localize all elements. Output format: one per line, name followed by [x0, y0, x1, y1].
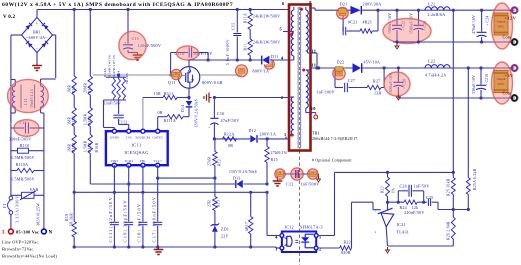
- svg-text:85~300 Vac: 85~300 Vac: [16, 230, 39, 235]
- svg-text:1nF/500V: 1nF/500V: [301, 182, 320, 187]
- svg-text:C17| 100nF/50V: C17| 100nF/50V: [151, 196, 156, 243]
- svg-text:FB1: FB1: [140, 159, 146, 163]
- svg-text:TL431: TL431: [397, 230, 410, 235]
- svg-text:N: N: [49, 231, 53, 236]
- svg-text:R15: R15: [271, 157, 278, 162]
- svg-text:330uF/10V: 330uF/10V: [472, 75, 476, 94]
- svg-text:ICE5QSAG: ICE5QSAG: [124, 150, 149, 155]
- svg-text:R18A: R18A: [72, 115, 76, 125]
- svg-text:C111| 22nF/50V: C111| 22nF/50V: [108, 196, 113, 242]
- svg-text:266uH(44:7:3:9)|ER28/17: 266uH(44:7:3:9)|ER28/17: [312, 137, 358, 141]
- svg-text:1.5MR/500V: 1.5MR/500V: [11, 155, 35, 160]
- svg-text:20MR: 20MR: [84, 82, 88, 93]
- svg-text:D21: D21: [340, 1, 348, 6]
- svg-text:#R17: #R17: [245, 222, 249, 231]
- svg-text:10: 10: [311, 106, 316, 111]
- svg-text:Line OVP=320Vac: Line OVP=320Vac: [2, 240, 39, 245]
- svg-text:220nF/50V: 220nF/50V: [404, 210, 424, 215]
- svg-text:+12V: +12V: [505, 15, 517, 20]
- svg-text:+5V: +5V: [505, 73, 514, 78]
- svg-text:L: L: [2, 231, 6, 236]
- svg-text:820R: 820R: [341, 250, 351, 255]
- svg-text:R14: R14: [116, 71, 120, 77]
- svg-text:R22: R22: [344, 240, 351, 245]
- svg-text:FR: FR: [311, 172, 314, 174]
- svg-text:IC21: IC21: [397, 222, 406, 227]
- svg-text:#R14B: #R14B: [125, 73, 129, 84]
- svg-text:0R: 0R: [158, 110, 163, 115]
- svg-text:#R21: #R21: [363, 20, 373, 25]
- svg-text:470uF/16V: 470uF/16V: [472, 15, 476, 34]
- svg-text:15R: 15R: [154, 91, 162, 96]
- svg-text:Q11: Q11: [168, 80, 176, 85]
- svg-text:5.6nF/1000V: 5.6nF/1000V: [226, 39, 230, 65]
- svg-text:SFH617A-3: SFH617A-3: [300, 225, 323, 230]
- svg-text:D11: D11: [271, 54, 279, 59]
- svg-text:1%: 1%: [392, 188, 396, 193]
- svg-text:VIN2: VIN2: [110, 159, 118, 163]
- svg-text:OVC: OVC: [498, 82, 505, 86]
- svg-text:47nF/50V: 47nF/50V: [221, 118, 240, 123]
- svg-text:D22: D22: [337, 60, 345, 65]
- svg-text:BrownOut=44Vac(No Load): BrownOut=44Vac(No Load): [2, 254, 57, 259]
- svg-text:1nF/100V: 1nF/100V: [317, 90, 335, 95]
- svg-text:Com: Com: [503, 91, 512, 96]
- svg-text:BrownIn=73Vac: BrownIn=73Vac: [2, 247, 34, 252]
- svg-text:11: 11: [312, 63, 317, 68]
- svg-text:2: 2: [319, 247, 321, 252]
- svg-text:~600V/4A~: ~600V/4A~: [26, 35, 48, 40]
- svg-text:200V/30A: 200V/30A: [363, 1, 382, 6]
- svg-text:CS3: CS3: [126, 135, 132, 139]
- svg-text:0.56R/1W/1%: 0.56R/1W/1%: [108, 55, 112, 77]
- svg-text:IC11: IC11: [131, 142, 141, 147]
- svg-text:FR: FR: [175, 73, 178, 75]
- svg-text:R11: R11: [244, 44, 248, 51]
- svg-text:FR: FR: [240, 69, 243, 71]
- svg-text:R110: R110: [20, 143, 30, 148]
- svg-text:R16B: R16B: [95, 142, 99, 152]
- svg-text:2.2uH/6A: 2.2uH/6A: [428, 12, 446, 17]
- svg-text:L22: L22: [428, 59, 435, 64]
- svg-text:385V/0.25W: 385V/0.25W: [36, 203, 41, 226]
- svg-text:C18| 1nF/50V: C18| 1nF/50V: [137, 203, 142, 243]
- svg-text:VAR: VAR: [30, 187, 39, 192]
- svg-text:D12: D12: [249, 128, 257, 133]
- svg-text:45V/10A: 45V/10A: [364, 60, 381, 65]
- svg-text:IC12: IC12: [285, 225, 294, 230]
- svg-text:V 0.2: V 0.2: [3, 15, 16, 20]
- svg-text:24kR/2W/500V: 24kR/2W/500V: [253, 15, 280, 19]
- svg-text:800V/0.6R: 800V/0.6R: [202, 80, 223, 85]
- svg-text:C16: C16: [217, 111, 225, 116]
- svg-text:SOURCE6: SOURCE6: [135, 135, 150, 139]
- svg-text:+: +: [36, 21, 39, 26]
- svg-text:27kR: 27kR: [208, 157, 212, 166]
- svg-text:150V/0.2A/50nS: 150V/0.2A/50nS: [229, 170, 257, 174]
- svg-text:R111: R111: [164, 91, 173, 96]
- svg-text:800V/1A: 800V/1A: [253, 69, 270, 74]
- svg-text:L21: L21: [428, 2, 435, 7]
- svg-text:22V: 22V: [221, 234, 229, 239]
- svg-text:R16: R16: [88, 86, 92, 93]
- svg-text:R12A: R12A: [224, 132, 235, 137]
- svg-text:#C21: #C21: [348, 20, 358, 25]
- svg-text:R11A: R11A: [244, 13, 248, 23]
- svg-text:# Optional Component: # Optional Component: [312, 159, 352, 163]
- svg-text:Com: Com: [503, 35, 512, 40]
- svg-text:ZCD4: ZCD4: [124, 159, 133, 163]
- svg-text:C26: C26: [400, 184, 407, 189]
- svg-text:+ C24: + C24: [486, 16, 490, 26]
- svg-text:-: -: [36, 46, 38, 51]
- svg-text:R110A: R110A: [16, 162, 29, 167]
- svg-text:TR1: TR1: [312, 131, 320, 136]
- svg-text:24kR/2W/500V: 24kR/2W/500V: [253, 41, 280, 45]
- svg-text:58.3kR: 58.3kR: [68, 213, 73, 226]
- svg-text:R14A: R14A: [103, 68, 107, 77]
- svg-text:3.15A/300V: 3.15A/300V: [15, 195, 20, 223]
- svg-text:R27: R27: [373, 79, 380, 84]
- svg-text:330nF/305V: 330nF/305V: [9, 136, 32, 141]
- svg-text:D14: D14: [181, 105, 185, 112]
- svg-text:ZD1: ZD1: [221, 227, 229, 232]
- svg-text:C12: C12: [286, 182, 294, 187]
- svg-text:13R: 13R: [374, 90, 382, 95]
- svg-text:C27: C27: [348, 78, 355, 83]
- svg-text:R16A: R16A: [88, 115, 92, 125]
- svg-text:R16B: R16B: [88, 142, 92, 152]
- svg-text:3: 3: [275, 247, 277, 252]
- svg-text:R13: R13: [217, 200, 221, 207]
- svg-text:0.47R/1W/1%: 0.47R/1W/1%: [112, 55, 116, 77]
- svg-text:GND8: GND8: [110, 135, 119, 139]
- svg-text:GATE5: GATE5: [152, 135, 163, 139]
- svg-text:R18: R18: [72, 86, 76, 93]
- svg-text:D13: D13: [233, 176, 241, 181]
- svg-text:60W(12V x 4.58A + 5V x 1A) SMP: 60W(12V x 4.58A + 5V x 1A) SMPS demoboar…: [2, 1, 233, 8]
- svg-text:R25A 6.2kR: R25A 6.2kR: [473, 168, 477, 190]
- svg-text:1nF/50V: 1nF/50V: [414, 184, 430, 189]
- svg-text:C112: C112: [118, 120, 128, 125]
- svg-text:C19| 33pF/50V: C19| 33pF/50V: [122, 199, 127, 242]
- svg-text:200V/1A: 200V/1A: [260, 132, 277, 137]
- svg-text:C25: C25: [426, 195, 433, 200]
- svg-text:4.7uH/4.2A: 4.7uH/4.2A: [425, 73, 446, 78]
- svg-text:R23: R23: [381, 186, 385, 193]
- svg-text:VCC7: VCC7: [153, 159, 162, 163]
- svg-text:1.5MR: 1.5MR: [84, 140, 88, 152]
- svg-text:FR: FR: [338, 72, 341, 74]
- svg-text:R12: R12: [217, 159, 221, 166]
- svg-text:R111A: R111A: [164, 118, 177, 123]
- svg-text:+ C210: + C210: [485, 74, 489, 87]
- svg-text:R18B: R18B: [72, 142, 76, 152]
- svg-text:C15: C15: [230, 23, 235, 30]
- svg-text:R25 16kR: R25 16kR: [447, 178, 451, 196]
- svg-text:0R: 0R: [228, 143, 233, 148]
- svg-text:27R: 27R: [208, 200, 212, 207]
- svg-text:1.5MR: 1.5MR: [84, 113, 88, 125]
- svg-text:27kR/1%: 27kR/1%: [271, 150, 288, 155]
- svg-text:F1: F1: [2, 203, 7, 208]
- svg-text:R26 2.94R: R26 2.94R: [447, 221, 451, 240]
- svg-text:1: 1: [284, 132, 286, 137]
- svg-text:FR: FR: [279, 172, 282, 174]
- svg-text:OVC: OVC: [498, 25, 505, 29]
- svg-text:+: +: [208, 126, 210, 130]
- svg-text:150V/0.2A/50nS: 150V/0.2A/50nS: [195, 99, 199, 127]
- svg-text:BR1: BR1: [33, 30, 41, 35]
- svg-text:1.5MR/500V: 1.5MR/500V: [11, 176, 35, 181]
